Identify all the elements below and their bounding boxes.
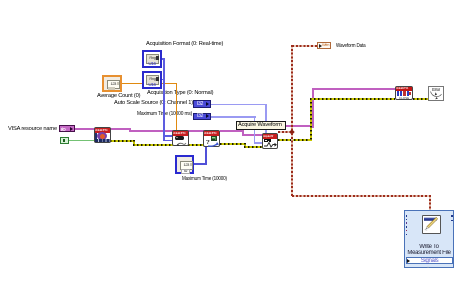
terminal Waveform Data — [317, 42, 331, 49]
wire blue: ring constants down to Config1 — [162, 58, 165, 60]
wire VISA magenta: terminal to Initialize — [74, 128, 94, 130]
terminal I32 maximum time — [193, 113, 211, 121]
wire blue: Maximum Time constant up to Config2 — [194, 163, 207, 165]
wire VISA magenta: Config2 to Acquire — [220, 130, 244, 132]
wire error: Close to error out — [413, 98, 429, 100]
signals bar — [406, 257, 453, 265]
label Average Count — [97, 93, 140, 100]
constant boolean F — [60, 137, 69, 144]
label box Acquire Waveform (covers wires) — [236, 121, 286, 130]
wire blue I32 maxtime to Acquire left — [211, 116, 256, 118]
wire error: Initialize to Config1 — [110, 140, 134, 142]
label Maximum Time 10000 — [182, 176, 227, 183]
VI1 Initialize — [94, 127, 111, 143]
label VISA resource name — [8, 126, 57, 133]
label Auto Scale Source — [114, 100, 193, 107]
wire error: Config1 to Config2 — [188, 144, 204, 146]
VI5 Close — [395, 86, 413, 101]
wire waveform red dashed: junction down to Write To Measurement File — [291, 133, 293, 196]
wire blue I32 ch1 to Acquire top — [211, 104, 267, 106]
label Waveform Data — [336, 43, 366, 50]
label Acquisition Format — [146, 41, 223, 48]
constant Maximum Time 10000 — [175, 155, 194, 175]
terminal I32 channel — [193, 100, 211, 108]
wire VISA magenta: Initialize to Config1 — [110, 128, 131, 130]
wire error: Config2 to Acquire — [220, 143, 245, 145]
VI4 Acquire Waveform — [262, 133, 278, 149]
label Acquisition Type — [147, 90, 213, 97]
wire error: Acquire out to Close — [278, 139, 312, 141]
VI2 Configure Acquisition — [172, 130, 189, 147]
label Maximum Time ms — [137, 111, 192, 118]
icon page with pencil — [422, 215, 442, 235]
wire VISA magenta: Config1 to Config2 — [188, 130, 204, 132]
indicator error out — [428, 86, 444, 102]
wire waveform red dashed: Acquire to junction — [278, 131, 292, 133]
junction waveform — [289, 129, 294, 134]
wire orange: Average Count to Config1 — [121, 83, 177, 85]
wire VISA magenta: Acquire out to Close (under label) — [277, 125, 314, 127]
wire boolean green: constant to Initialize — [69, 140, 94, 141]
constant ring Acquisition Type — [142, 71, 162, 90]
constant ring Acquisition Format — [142, 50, 162, 69]
terminal VISA resource name — [59, 125, 75, 133]
express VI Write To Measurement File — [404, 210, 454, 269]
wire waveform red dashed: junction up to Waveform Data — [291, 45, 293, 130]
constant Average Count — [102, 75, 122, 92]
VI3 Configure Channel — [203, 130, 220, 148]
